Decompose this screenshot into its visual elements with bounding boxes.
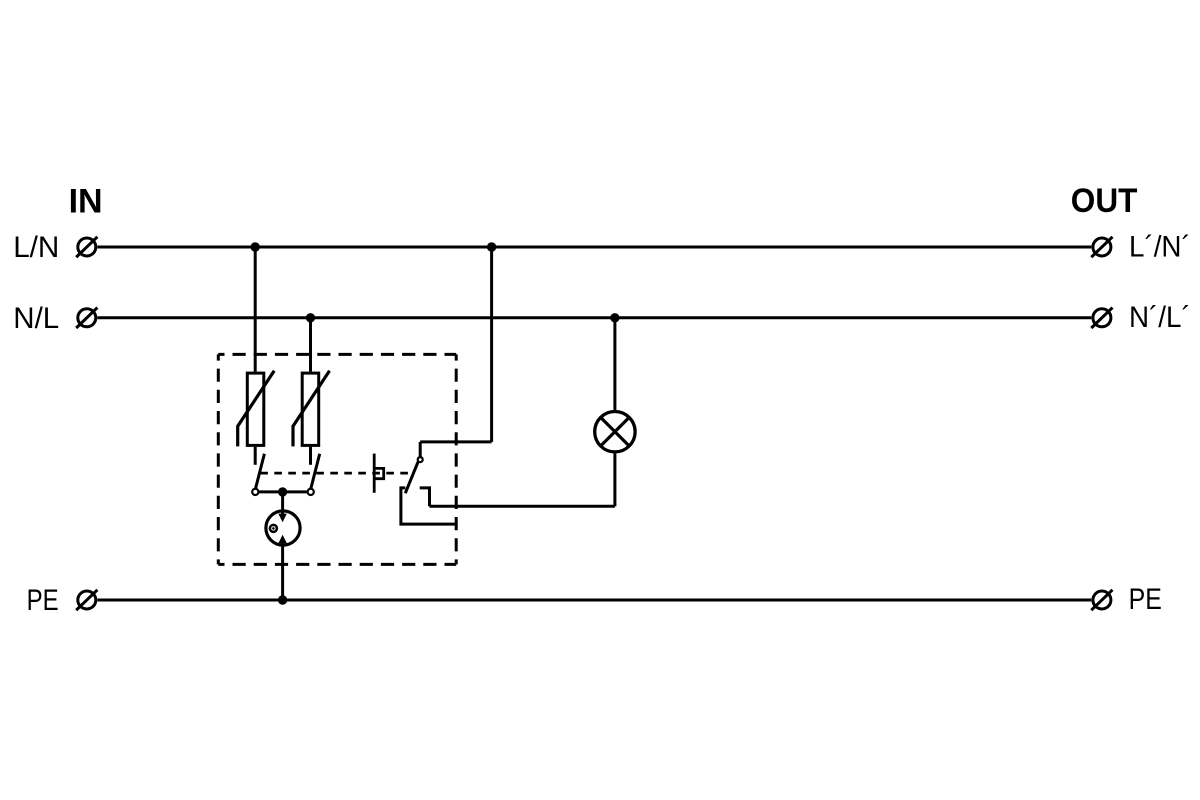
indicator lamp H1 cross stroke 1 xyxy=(601,417,630,446)
auxiliary switch S1 right contact lead xyxy=(420,488,430,506)
wire lamp bottom xyxy=(613,453,616,506)
svg-text:PE: PE xyxy=(1129,582,1162,616)
wire L/N down to switch xyxy=(490,247,493,442)
wire L/N bus xyxy=(97,246,1091,249)
terminal X2 IN N/L xyxy=(76,308,97,328)
svg-text:PE: PE xyxy=(27,584,59,617)
protection module boundary (dashed box) top xyxy=(218,353,456,356)
protection module boundary (dashed box) left xyxy=(217,354,220,564)
wire lamp return to switch xyxy=(430,505,615,508)
thermal disconnector F2 blade xyxy=(311,454,320,489)
gas discharge tube F3 gas dot xyxy=(270,525,277,532)
varistor RV2 lower lead xyxy=(309,447,312,465)
thermal disconnector F1 contact xyxy=(252,489,258,495)
varistor RV1 body xyxy=(247,373,263,445)
terminal X3 IN PE xyxy=(76,590,97,610)
auxiliary switch S1 pivot xyxy=(418,457,423,462)
latching device symbol xyxy=(374,454,384,493)
indicator lamp H1 envelope xyxy=(595,412,635,452)
gas discharge tube F3 top electrode arrow xyxy=(278,514,287,523)
node J3 on N/L (varistor 2 tap) xyxy=(306,313,315,322)
svg-text:OUT: OUT xyxy=(1071,181,1138,220)
node J5 on PE (arrester tap) xyxy=(278,595,287,604)
svg-text:N´/L´: N´/L´ xyxy=(1129,301,1191,334)
wire arrester to PE xyxy=(281,543,284,600)
wire N/L bus xyxy=(97,316,1091,319)
svg-text:IN: IN xyxy=(69,182,103,220)
node J4 on N/L (lamp tap) xyxy=(610,313,619,322)
wire common point to arrester xyxy=(281,492,284,515)
node J6 common point xyxy=(278,487,287,496)
terminal X4 OUT L'/N' xyxy=(1091,237,1112,257)
wire L/N to varistor 1 xyxy=(254,247,257,372)
gas discharge tube F3 bottom electrode arrow xyxy=(278,535,287,544)
terminal X6 OUT PE xyxy=(1091,590,1112,610)
terminal X1 IN L/N xyxy=(76,237,97,257)
wire PE bus xyxy=(97,599,1091,602)
auxiliary switch S1 blade xyxy=(405,462,418,493)
indicator lamp H1 cross stroke 2 xyxy=(601,417,630,446)
wire joining disconnector contacts xyxy=(259,490,307,493)
thermal disconnector F2 contact xyxy=(308,489,314,495)
node J2 on L/N (switch feed tap) xyxy=(487,242,496,251)
varistor RV1 lower lead xyxy=(254,447,257,465)
protection module boundary (dashed box) bottom xyxy=(218,563,456,566)
node J1 on L/N (varistor 1 tap) xyxy=(251,242,260,251)
mechanical linkage (dashed) xyxy=(260,472,414,475)
thermal disconnector F1 blade xyxy=(255,454,264,489)
varistor RV2 body xyxy=(302,373,319,445)
svg-text:L´/N´: L´/N´ xyxy=(1129,230,1191,263)
wire N/L to varistor 2 xyxy=(309,318,312,372)
svg-text:N/L: N/L xyxy=(13,302,59,335)
varistor RV1 diagonal xyxy=(238,371,275,447)
varistor RV2 diagonal xyxy=(293,371,330,447)
wire horizontal to switch pivot xyxy=(420,440,491,443)
auxiliary switch S1 left contact lead xyxy=(401,488,457,524)
svg-text:L/N: L/N xyxy=(13,231,59,264)
wire pivot stub xyxy=(419,442,422,457)
terminal X5 OUT N'/L' xyxy=(1091,308,1112,328)
wire N/L to lamp xyxy=(613,318,616,410)
protection module boundary (dashed box) right xyxy=(455,354,458,564)
gas discharge tube F3 envelope xyxy=(266,511,300,545)
